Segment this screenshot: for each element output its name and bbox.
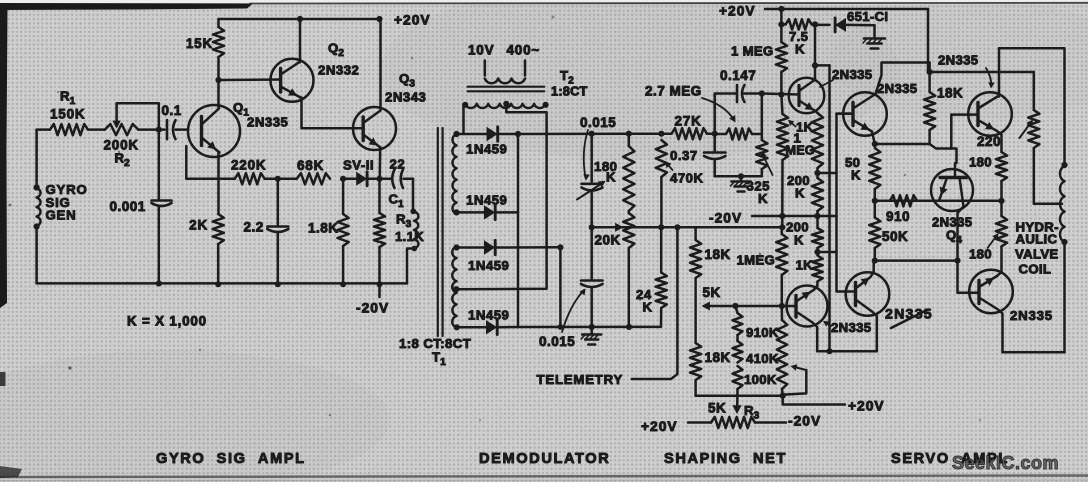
label 2N343 (385, 90, 426, 105)
svg-text:1.1K: 1.1K (395, 229, 424, 244)
svg-text:K: K (851, 168, 861, 183)
tap dot T1 sec mid (453, 244, 459, 250)
+20V rail (servo) (765, 8, 928, 11)
label 27K (675, 114, 702, 129)
resistor 18K servo (924, 63, 935, 145)
svg-text:0.015: 0.015 (539, 334, 575, 349)
demod bottom wire (518, 326, 661, 329)
label 2.7 MEG (645, 84, 702, 99)
resistor 200K lower servo (812, 216, 823, 252)
tap dot T1 sec bottom (454, 324, 460, 330)
wire v2 vertical (837, 114, 856, 292)
svg-text:K: K (643, 300, 653, 315)
label Q1 (233, 100, 249, 119)
tap dot T1 sec top (453, 131, 459, 137)
svg-text:0.015: 0.015 (580, 115, 616, 130)
tap dot T1 sec lower-ct (453, 286, 459, 292)
svg-text:2N332: 2N332 (318, 63, 359, 78)
shaping bottom wire (696, 394, 783, 397)
junction dot servo rail (778, 6, 784, 12)
divider tap wire (702, 302, 782, 311)
label 0.37 (670, 148, 698, 163)
wire Q1 emitter down to 2K (217, 153, 220, 215)
transistor t3 emitter lead (978, 120, 1002, 152)
svg-text:2N335: 2N335 (1010, 308, 1053, 323)
wire C1 output to T1 primary (412, 179, 415, 210)
transistor t3 collector lead (978, 48, 999, 108)
diode 651-C1 (815, 18, 875, 32)
label 910K (746, 325, 779, 340)
transistor t2b base bar (794, 296, 797, 318)
svg-text:2N335: 2N335 (831, 320, 871, 335)
wiper row wire (592, 226, 783, 229)
label +20V (servo rail) (719, 4, 756, 19)
label 1N459 (d3) (468, 258, 509, 273)
diode SV-11 (343, 172, 379, 186)
transistor t2 outline 2N335 (843, 92, 887, 136)
label 50K (lower) (882, 229, 908, 244)
label 325 (747, 179, 771, 194)
resistor 410K (733, 341, 743, 363)
junction dot bottom 20K (626, 324, 632, 330)
label 0.015 (lower) (539, 334, 575, 349)
gyro signal generator coil (34, 184, 41, 229)
svg-text:5K: 5K (703, 285, 721, 300)
svg-text:1:8CT: 1:8CT (551, 84, 588, 99)
label +20V (shaping right) (848, 399, 885, 414)
svg-text:68K: 68K (297, 158, 324, 173)
label VALVE (1015, 247, 1059, 262)
svg-text:SV-II: SV-II (343, 158, 374, 173)
label HYDR- (1016, 220, 1059, 235)
transistor t1 outline 2N335 (789, 78, 825, 114)
svg-text:220K: 220K (231, 158, 266, 173)
transistor Q4 emitter lead (939, 178, 948, 201)
svg-text:1.8K: 1.8K (308, 221, 339, 236)
svg-text:K: K (795, 186, 805, 201)
transistor t3b emitter lead (up) (856, 261, 874, 289)
label T2 (560, 68, 574, 87)
junction dot wiper row 470K (658, 224, 664, 230)
junction dot wiper row right (779, 224, 785, 230)
capacitor 0.001 (152, 130, 172, 284)
capacitor C1 22 (380, 170, 414, 189)
svg-text:VALVE: VALVE (1015, 247, 1059, 262)
node ground junction (shaping) (738, 173, 744, 179)
leader 2.7MEG arrow (702, 98, 736, 123)
label 2N335 (t1) (832, 67, 872, 82)
svg-text:27K: 27K (675, 114, 702, 129)
label 5K (R3) (708, 401, 726, 416)
transistor Q2 outline (271, 59, 314, 102)
svg-text:10V: 10V (468, 43, 494, 58)
-20V rail (shaping) (752, 215, 837, 218)
label 2N335 (Q4) (932, 215, 972, 230)
transistor t5 base bar (977, 281, 980, 304)
label 18K lower (705, 350, 731, 365)
resistor 180K (623, 134, 634, 213)
node 68K/1.8K junction (340, 176, 346, 182)
label R3 (shaping) (744, 403, 760, 422)
junction dot tap/base t2b (779, 303, 785, 309)
+20V feed wire (shaping bottom) (783, 396, 845, 405)
resistor 20K (623, 213, 634, 327)
label 2N335 (t2b) (831, 320, 871, 335)
wire 220K to 68K (265, 178, 297, 181)
resistor 68K (297, 173, 330, 184)
label 200 (upper) (787, 173, 810, 188)
label 2N335 (t3b) struck (885, 307, 933, 323)
diode 1N459 d2 (457, 205, 519, 219)
resistor 15K (213, 19, 224, 80)
svg-text:400~: 400~ (507, 43, 541, 58)
svg-text:2N343: 2N343 (385, 90, 426, 105)
junction dot tap/910K (732, 303, 738, 309)
wire t3 base (951, 113, 978, 116)
transistor Q3 emitter lead (363, 135, 380, 148)
junction dot bottom rail 2K (215, 281, 221, 287)
capacitor 2.2 (267, 179, 288, 284)
label 150K (50, 107, 85, 122)
label 1N459 (d4) (468, 308, 509, 323)
label 1.8K (308, 221, 339, 236)
label GYRO (46, 182, 88, 197)
potentiometer R3 5K (688, 417, 786, 428)
svg-text:K: K (606, 170, 616, 185)
label 180 (demod) (594, 159, 618, 174)
label 1 MEG (servo top) (731, 44, 774, 59)
label 180 (upper servo) (969, 155, 992, 170)
wire t1 base (762, 94, 799, 95)
node 7.5K left (778, 21, 784, 27)
wire 220 top drop (1033, 72, 1036, 110)
label 50 (50K) (845, 155, 860, 170)
label C1 (389, 192, 405, 211)
transistor Q1 collector lead (202, 109, 220, 125)
label 0.001 (110, 199, 146, 214)
svg-text:0.147: 0.147 (720, 68, 756, 83)
resistor 100K (733, 366, 743, 389)
label R3 (gyro) (396, 212, 412, 231)
transistor t1 base bar (797, 86, 800, 106)
rheostat wiper link (784, 364, 807, 394)
label 651-CI (847, 9, 888, 24)
svg-text:+20V: +20V (641, 419, 678, 434)
node diode/C1/R3/Q3e junction (376, 176, 382, 182)
label SV-11 (343, 158, 374, 173)
wire t2e to 18K bottom (875, 143, 930, 146)
resistor R3 1.1K (374, 179, 385, 284)
T2 sec left dot (462, 102, 468, 108)
resistor 18K upper (690, 240, 701, 343)
label 2N335 (t3) (938, 53, 978, 68)
label Q4 (946, 228, 962, 247)
label 1MEG (shaping) (737, 253, 776, 268)
hydraulic valve coil (1060, 162, 1068, 245)
svg-text:18K: 18K (937, 86, 963, 101)
node t1 base (778, 91, 784, 97)
svg-text:20K: 20K (595, 233, 621, 248)
transistor t3 base bar (976, 103, 979, 126)
resistor 325K (756, 134, 767, 176)
transistor t5 outline 2N335 (969, 270, 1013, 314)
section label SERVO AMPL (891, 451, 1009, 467)
label 200 (lower) (786, 220, 809, 235)
resistor 2.7MEG variable (715, 128, 762, 139)
svg-text:1N459: 1N459 (466, 142, 507, 157)
svg-text:GEN: GEN (46, 208, 77, 223)
resistor 910K (733, 306, 743, 341)
resistor 470K variable (656, 140, 667, 227)
servo bottom bracket (1003, 242, 1065, 352)
label 1:8 CT:8CT (399, 336, 471, 351)
svg-text:651-CI: 651-CI (847, 9, 888, 24)
wire 100K to R3 wiper arrow (732, 389, 741, 414)
resistor 50K lower variable (869, 201, 880, 261)
label 220K (231, 158, 266, 173)
transistor t3b base bar (854, 283, 857, 306)
label 68K (297, 158, 324, 173)
wire Q1 collector (217, 80, 220, 107)
label 180 (lower servo) (969, 247, 992, 262)
wire Q2 base (219, 78, 281, 81)
node 7.5K right (812, 21, 818, 27)
transistor t2b collector lead (down) (796, 312, 817, 352)
node d3 output (557, 244, 563, 250)
resistor 180 upper servo (996, 152, 1007, 201)
transformer T1 core (438, 128, 443, 336)
svg-text:2K: 2K (189, 218, 208, 233)
svg-text:1N459: 1N459 (468, 258, 509, 273)
wire 252 to v2 (818, 251, 837, 254)
node 50K bottom / 910 (872, 198, 878, 204)
junction dot wiper row left (589, 224, 595, 230)
transistor Q1 outline (188, 105, 240, 157)
transistor Q3 outline (353, 107, 396, 150)
svg-text:-20V: -20V (709, 211, 742, 226)
ground (demodulator) (581, 327, 601, 345)
svg-text:470K: 470K (670, 171, 704, 186)
section label SHAPING NET (664, 451, 787, 467)
svg-text:910: 910 (886, 209, 910, 224)
label 0.015 (upper) (580, 115, 616, 130)
wire collector branch to v1 (815, 64, 830, 67)
svg-text:K = X 1,000: K = X 1,000 (127, 314, 207, 329)
capacitor 0.37 (704, 134, 726, 177)
svg-text:50K: 50K (882, 229, 908, 244)
label 1K (leftcol) (796, 120, 814, 135)
wire d3 output drop (559, 247, 562, 327)
svg-text:2.7 MEG: 2.7 MEG (645, 84, 702, 99)
label K = X 1,000 (127, 314, 207, 329)
wire t2 base (837, 112, 854, 115)
label 22 (390, 157, 406, 172)
label MEG (stack) (786, 144, 815, 158)
T2 sec right dot (543, 102, 549, 108)
svg-text:100K: 100K (744, 372, 777, 387)
svg-text:2N335: 2N335 (832, 67, 872, 82)
svg-text:SHAPING NET: SHAPING NET (664, 451, 787, 467)
scan border left black bar (0, 3, 8, 386)
transformer T2 core (468, 87, 545, 92)
node 220K/2.2 junction (275, 176, 281, 182)
svg-text:AULIC: AULIC (1016, 232, 1058, 247)
-20V stub (gyro) (378, 284, 381, 297)
wiper arrow into 20K (615, 223, 623, 232)
wire v1 long vertical (828, 65, 831, 351)
svg-text:K: K (758, 191, 768, 206)
svg-text:2N335: 2N335 (247, 115, 288, 130)
resistor 1.8K (338, 179, 349, 284)
label 18K (servo) (937, 86, 963, 101)
jog rail to wiper row (781, 216, 784, 227)
label 2N335 (t5) (1010, 308, 1053, 323)
transistor t5 collector lead (down) (979, 298, 1003, 353)
label K (200K upper) (795, 186, 805, 201)
tap dot T1 sec upper-ct (453, 209, 459, 215)
label 220 (977, 134, 1001, 149)
T2 secondary winding (465, 104, 545, 108)
leader 2N335 t1 (820, 80, 833, 87)
resistor 1MEG servo lower (777, 95, 788, 217)
label 1N459 (d2) (466, 193, 507, 208)
svg-text:+20V: +20V (394, 13, 431, 28)
leader arrow t2b label (823, 321, 831, 327)
transistor t2b emitter lead (up) (796, 290, 814, 302)
label T1 (432, 350, 446, 369)
wire 1K to t2b emitter (814, 282, 818, 291)
arrow 325K variable (761, 151, 773, 175)
svg-text:-20V: -20V (788, 414, 821, 429)
transistor Q1 emitter lead (202, 138, 220, 153)
label 2N332 (318, 63, 359, 78)
resistor 910 (890, 195, 917, 206)
svg-text:220: 220 (977, 134, 1001, 149)
junction dot Q2 collector at rail (297, 16, 303, 22)
transistor t1 emitter lead (799, 101, 818, 114)
svg-text:1K: 1K (796, 258, 814, 273)
svg-text:0.001: 0.001 (110, 199, 146, 214)
label Q2 (328, 41, 344, 60)
label K (180K demod) (606, 170, 616, 185)
diode 1N459 d3 (457, 240, 561, 254)
scan border bottom line (0, 466, 1088, 481)
resistor 24K (656, 227, 667, 327)
label 2N335 (Q1) (247, 115, 288, 130)
label R1 (60, 89, 76, 108)
strike line t3b label (891, 310, 928, 329)
svg-text:0.1: 0.1 (162, 103, 182, 118)
wire Q3 emitter to output node (378, 148, 381, 179)
junction dot bottom 0.015-2 (589, 324, 595, 330)
label 2K (189, 218, 208, 233)
wire 220 bottom to coil tap (1034, 148, 1062, 204)
transistor Q2 base bar (279, 69, 282, 93)
+20V rail (gyro) (219, 18, 380, 21)
label -20V (gyro) (356, 301, 389, 316)
label K (200K lower) (794, 233, 804, 248)
node d1 output (515, 131, 521, 137)
T2 sec center dot (503, 101, 509, 107)
diode 1N459 d4 (457, 320, 518, 334)
ground (shaping RC) (731, 176, 751, 191)
label 200K (104, 138, 139, 153)
node v1 bottom (826, 348, 832, 354)
svg-text:2N335: 2N335 (938, 53, 978, 68)
wire base row t5 (875, 261, 979, 293)
label 100K (744, 372, 777, 387)
arrow 220 variable (1020, 120, 1034, 139)
arrow 180 lower variable (988, 233, 999, 248)
junction dot rail 782 (779, 213, 785, 219)
node 180/emitter-row (998, 198, 1004, 204)
svg-text:COIL: COIL (1019, 262, 1052, 277)
wire to Q4 base jogs (930, 144, 957, 178)
junction dot bottom 560 (558, 324, 564, 330)
resistor 220 variable (1028, 110, 1039, 148)
wire T2 center tap drop (457, 104, 547, 289)
svg-text:+20V: +20V (848, 399, 885, 414)
transistor Q4 base bar (horizontal) (940, 176, 967, 179)
svg-text:410K: 410K (746, 351, 779, 366)
wire Q1 base from 0.1 cap (177, 128, 188, 131)
resistor variable (trim) shaping (777, 306, 787, 396)
section label GYRO SIG AMPL (156, 451, 306, 467)
transistor Q4 outline 2N335 (931, 169, 973, 211)
svg-text:15K: 15K (186, 36, 213, 51)
svg-text:TELEMETRY: TELEMETRY (537, 372, 624, 387)
label 1 (1MEG stack) (794, 131, 802, 146)
servo lower bus wire (817, 350, 877, 353)
svg-text:5K: 5K (708, 401, 726, 416)
node t2 emitter / 50K top (872, 141, 878, 147)
resistor 1K emitter t1 (812, 113, 823, 173)
label 10V (468, 43, 494, 58)
label GEN (46, 208, 77, 223)
resistor 27K (661, 128, 714, 139)
svg-text:180: 180 (969, 155, 992, 170)
resistor 180 lower variable (996, 201, 1007, 247)
node Q4 collector junction (954, 258, 960, 264)
node t2b emitter junction (814, 249, 820, 255)
node main/470K junction (658, 131, 664, 137)
label K (325K) (758, 191, 768, 206)
T1 secondary upper winding (452, 134, 456, 214)
wire d1-d2-d4 common vertical (517, 134, 520, 327)
svg-text:18K: 18K (705, 350, 731, 365)
node t1 collector branch (812, 62, 818, 68)
junction dot Q3 collector at rail (376, 16, 382, 22)
transistor Q2 collector lead (281, 19, 300, 75)
transistor Q4 collector lead (958, 178, 964, 261)
coupling wire to v2 (818, 172, 837, 175)
resistor 50K upper servo (869, 148, 880, 201)
label +20V (R3 left) (641, 419, 678, 434)
node main/0.015 junction (589, 131, 595, 137)
node 18K top / 220 branch (927, 69, 933, 75)
transistor t3b collector lead (down) (856, 300, 877, 352)
capacitor 0.1 (159, 120, 177, 139)
svg-text:180: 180 (969, 247, 992, 262)
wire 180 to t5 emitter (997, 247, 1002, 277)
label 15K (186, 36, 213, 51)
svg-text:+20V: +20V (719, 4, 756, 19)
svg-text:1MEG: 1MEG (737, 253, 776, 268)
watermark SeekIC.com (952, 453, 1059, 473)
transistor t2b outline 2N335 (787, 286, 828, 327)
transistor t3b outline 2N335 (846, 272, 890, 316)
label 910 (886, 209, 910, 224)
